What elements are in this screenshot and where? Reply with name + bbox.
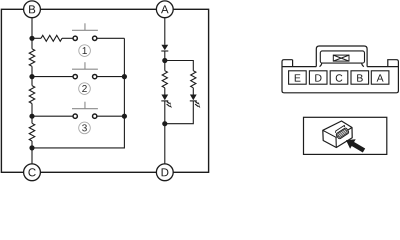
wire switch2 to right bus — [97, 76, 124, 78]
terminal node A — [156, 1, 173, 18]
junction — [29, 74, 34, 79]
wire switch1 to right bus — [97, 37, 124, 39]
wire left LED to lower junction — [164, 101, 166, 124]
wire B down to first junction — [31, 18, 33, 39]
switch 1 actuator — [72, 23, 98, 30]
wire right column switch bus — [123, 38, 125, 116]
wire row2 left — [32, 76, 73, 78]
resistor left column 1 — [29, 38, 35, 76]
switch 2 contacts — [73, 74, 97, 78]
wire switch3 to right bus — [97, 115, 124, 117]
junction — [162, 58, 167, 63]
resistor left column 2 — [29, 77, 35, 117]
junction — [29, 145, 34, 150]
outer box — [1, 9, 208, 172]
diode — [161, 45, 168, 51]
terminal node C — [24, 164, 41, 181]
LED — [190, 95, 200, 109]
connector housing — [282, 60, 398, 93]
junction — [122, 114, 127, 119]
component socket detail — [334, 125, 349, 139]
connector latch lock mark — [333, 55, 349, 61]
pointer arrow — [346, 139, 365, 152]
wire bottom node to C — [31, 148, 33, 164]
wire right LED to lower junction — [165, 101, 194, 124]
resistor LED branch left — [162, 61, 167, 95]
wire bottom return — [32, 116, 124, 148]
switch 3 label circle — [79, 122, 91, 134]
junction — [29, 114, 34, 119]
terminal node B — [24, 1, 41, 18]
junction — [29, 36, 34, 41]
component 3d box — [323, 121, 352, 148]
resistor left column 3 — [29, 116, 35, 148]
junction — [122, 74, 127, 79]
switch 2 actuator — [72, 62, 98, 69]
connector pin C — [330, 71, 348, 84]
switch 3 contacts — [73, 114, 97, 118]
switch 1 label circle — [79, 45, 91, 57]
resistor row 1 — [32, 35, 73, 41]
switch 1 contacts — [73, 36, 97, 40]
icon frame — [304, 117, 387, 154]
connector latch tower — [316, 46, 367, 67]
junction — [162, 121, 167, 126]
wire diode to junction — [164, 51, 166, 61]
resistor LED branch right — [191, 71, 196, 95]
wire A down to diode — [164, 18, 166, 45]
connector pin B — [351, 71, 369, 84]
connector pin E — [289, 71, 307, 84]
wire row3 left — [32, 115, 73, 117]
connector pin A — [371, 71, 389, 84]
wire junction to right branch — [165, 61, 194, 71]
wire lower junction to D — [164, 124, 166, 164]
switch 3 actuator — [72, 102, 98, 109]
terminal node D — [156, 164, 173, 181]
switch 2 label circle — [79, 83, 91, 95]
LED — [161, 95, 171, 109]
connector pin D — [309, 71, 327, 84]
